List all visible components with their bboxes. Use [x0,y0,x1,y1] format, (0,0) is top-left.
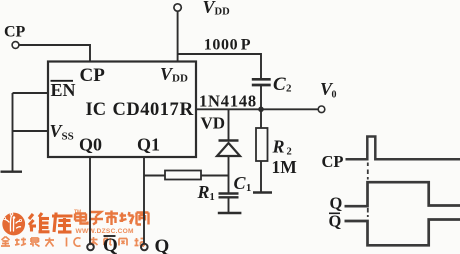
diode VD (cathode up) [217,141,240,157]
pin label EN (active low) [51,80,76,100]
timing label Qbar [329,211,342,230]
IC name label IC CD4017 [86,100,180,120]
wire VDD to IC [177,11,179,62]
wire R1 to diode/C1 node [201,175,229,177]
pin label Q0 [79,135,102,155]
capacitor C2 [252,79,271,85]
svg-text:CP: CP [322,152,344,171]
svg-text:Q1: Q1 [137,135,160,155]
node V0 label [320,79,337,101]
wire C1 to ground [228,197,230,212]
waveform Q [345,182,460,206]
wire left rail down [12,93,14,172]
svg-text:Q: Q [330,193,343,212]
svg-text:1N4148: 1N4148 [199,92,257,111]
svg-text:R: R [197,182,210,202]
watermark logo circle [2,212,25,235]
watermark WWW.DZSC.COM [76,228,135,235]
watermark 维库 text [29,213,73,233]
pin label CP [80,65,106,86]
svg-text:C: C [273,74,286,95]
terminal CP input [12,42,19,49]
IC U1 CD4017 box [48,62,196,158]
svg-text:2: 2 [287,146,292,157]
wire C2 to junction [260,85,262,110]
value label R1 [197,182,215,203]
svg-text:VD: VD [201,113,226,132]
waveform Qbar [345,220,460,246]
wire VSS to left rail [13,130,49,132]
value label 1M [272,157,298,177]
wire Q0 down [89,157,91,244]
wire R pin to V0 [196,108,318,110]
value label 1000P [204,37,251,54]
svg-text:SS: SS [62,131,74,143]
terminal Qbar output [87,244,94,251]
svg-text:Q: Q [155,236,170,254]
diode VD label [201,113,226,132]
dash-dot alignment line [367,163,369,218]
svg-text:DD: DD [172,73,188,85]
svg-text:R: R [272,137,285,157]
wire Q1 line to R1 [144,175,166,177]
ground (VSS) [1,170,23,172]
svg-text:EN: EN [51,80,76,100]
svg-text:IC: IC [86,100,107,120]
node Qbar label [103,235,118,254]
value label R2 [272,137,292,158]
ground (C1) [218,212,242,215]
node Q label [155,236,170,254]
svg-text:CD4017: CD4017 [113,100,180,120]
junction node at C2/R2/V0 [258,107,264,113]
svg-text:1: 1 [246,183,251,194]
svg-text:WWW.DZSC.COM: WWW.DZSC.COM [76,228,135,235]
wire CP input to IC [19,45,90,62]
wire diode anode down to C1 [228,157,230,193]
waveform CP [346,137,460,160]
pin label R [180,99,194,120]
node CP input label [4,23,26,40]
svg-text:1000P: 1000P [204,37,251,54]
wire Q1 down [143,157,145,244]
svg-text:DD: DD [215,7,231,18]
svg-text:C: C [234,173,247,193]
wire R-wire down to diode [228,109,230,140]
pin label VSS [50,121,74,143]
watermark 电子市场网 text [75,211,149,226]
pin label VDD [160,64,188,85]
svg-text:1: 1 [210,192,215,203]
value label C1 [234,173,252,194]
svg-text:CP: CP [80,65,106,86]
svg-text:Q0: Q0 [79,135,102,155]
resistor R1 [165,171,201,180]
svg-text:0: 0 [332,90,337,101]
wire EN to left rail [13,92,49,94]
terminal V0 [318,106,325,113]
svg-text:CP: CP [4,23,26,40]
value label C2 [273,74,292,95]
node VDD label [203,0,231,18]
ground (R2) [253,191,272,194]
pin label Q1 [137,135,160,155]
timing label CP [322,152,344,171]
svg-text:Q: Q [329,211,342,230]
terminal Q output [141,244,148,251]
wire R2 to ground [260,161,262,192]
terminal VDD top [174,4,181,11]
capacitor C1 [219,194,239,198]
svg-text:R: R [180,99,194,120]
svg-text:2: 2 [286,83,292,95]
svg-text:Q: Q [103,235,118,254]
wire VDD to C2 (1000P branch) [178,54,261,78]
wire junction to R2 [260,109,262,128]
watermark TM [74,210,81,216]
timing label Q [330,193,343,212]
watermark 全球最大IC采购网站 [1,237,144,247]
svg-text:1M: 1M [272,157,298,177]
value label 1N4148 [199,92,257,111]
resistor R2 [256,128,268,161]
